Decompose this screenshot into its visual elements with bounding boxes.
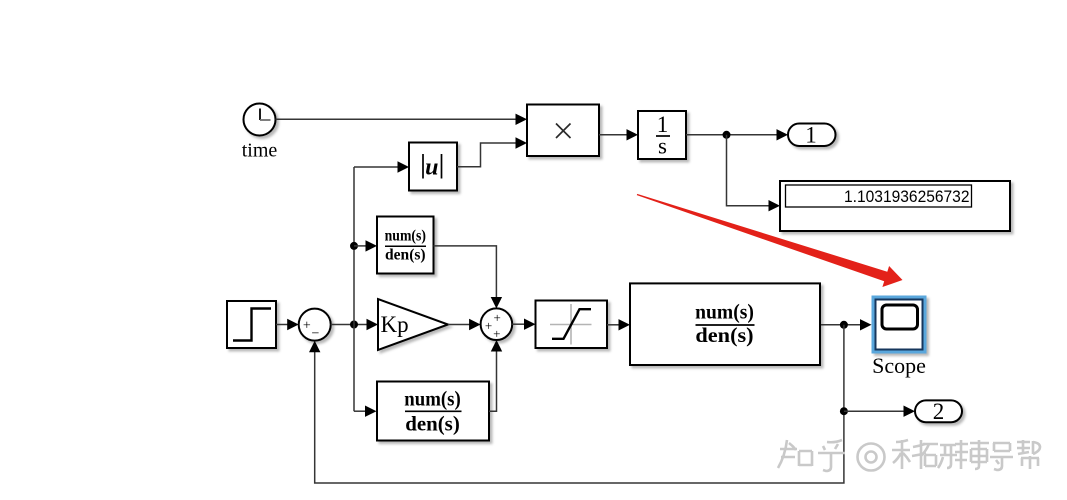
svg-text:den(s): den(s) [695, 323, 753, 347]
wire tf2 to sum2 bottom [489, 350, 497, 411]
junction dot outport2 [840, 407, 848, 415]
svg-text:+: + [485, 318, 492, 333]
svg-text:s: s [658, 134, 667, 159]
junction dot main [350, 321, 358, 329]
svg-text:+: + [303, 318, 311, 333]
wire Kp to sum2 [448, 324, 471, 326]
svg-text:Kp: Kp [381, 312, 409, 337]
watermark zhihu [778, 440, 1040, 471]
step block [227, 301, 276, 348]
svg-text:2: 2 [933, 399, 945, 424]
wire saturation to tf3 [607, 324, 620, 326]
svg-text:time: time [242, 140, 278, 162]
wire branch to display [727, 135, 771, 206]
product block x [527, 105, 599, 157]
svg-text:den(s): den(s) [405, 412, 460, 436]
integrator block 1/s [638, 111, 686, 159]
wire vertical branch [353, 167, 355, 411]
svg-text:+: + [493, 326, 500, 341]
svg-text:1: 1 [805, 123, 817, 148]
display block [780, 181, 1010, 231]
wire tf1 to sum2 [434, 246, 497, 299]
wire sum2 to saturation [512, 323, 525, 325]
wire junction to tf1 [354, 245, 367, 247]
red annotation arrow [637, 194, 903, 287]
transfer fcn 1 (top) [377, 217, 434, 274]
svg-text:1.1031936256732: 1.1031936256732 [844, 187, 970, 206]
svg-text:+: + [494, 310, 501, 325]
saturation block [536, 301, 608, 349]
junction dot upper [350, 242, 358, 250]
svg-text:u: u [425, 155, 438, 181]
abs block |u| [409, 143, 457, 191]
svg-text:num(s): num(s) [385, 227, 426, 244]
outport 2 [915, 400, 962, 422]
outport 1 [788, 124, 836, 147]
wire step to sum1 [276, 324, 289, 326]
sum2 [481, 308, 513, 340]
svg-text:num(s): num(s) [695, 300, 754, 324]
clock block (time source) [244, 104, 276, 136]
svg-text:−: − [312, 326, 320, 341]
wire to outport 2 [844, 410, 905, 412]
wire clock to product [276, 118, 518, 120]
wire integrator to outport 1 [686, 134, 778, 136]
wire vert to tf2 [354, 410, 367, 412]
transfer fcn 2 (bottom) [377, 382, 489, 441]
svg-text:den(s): den(s) [385, 246, 426, 263]
gain Kp [378, 299, 448, 350]
transfer fcn 3 (plant) [630, 283, 820, 365]
svg-text:Scope: Scope [872, 353, 926, 378]
wire feedback down [315, 325, 844, 483]
wire abs to product [457, 143, 517, 167]
svg-text:num(s): num(s) [404, 387, 461, 411]
junction dot [723, 131, 731, 139]
wire sum1 to Kp with junction [331, 324, 368, 326]
scope block [872, 296, 927, 354]
sum1 [299, 309, 331, 341]
wire to abs block [354, 166, 399, 168]
wire tf3 to scope [821, 324, 862, 326]
junction dot out [840, 321, 848, 329]
wire product to integrator [599, 134, 628, 136]
